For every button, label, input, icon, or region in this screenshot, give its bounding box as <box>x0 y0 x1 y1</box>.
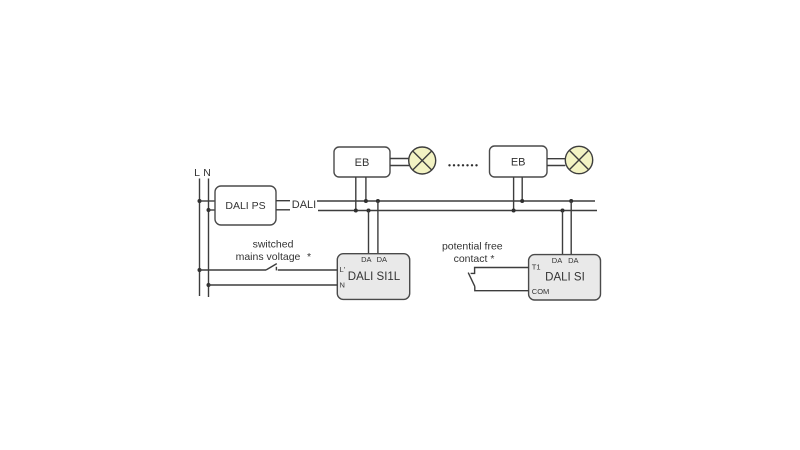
net label DALI <box>292 199 316 211</box>
svg-text:COM: COM <box>532 287 550 296</box>
junction SI1L on top bus <box>376 199 380 203</box>
node N <box>203 167 211 179</box>
wire EB2 to lamp bottom <box>547 165 565 167</box>
svg-text:T1: T1 <box>532 263 541 272</box>
junction SI on top bus <box>569 199 573 203</box>
ballast EB1 <box>334 147 390 177</box>
junction EB2 on bottom bus <box>512 209 516 213</box>
junction EB1 on top bus <box>364 199 368 203</box>
svg-text:L': L' <box>340 265 346 274</box>
module DALI SI1L <box>337 254 409 300</box>
wire EB1 to lamp bottom <box>390 165 409 167</box>
svg-text:N: N <box>340 281 345 290</box>
junction EB1 on bottom bus <box>354 209 358 213</box>
wire DALI PS out bottom <box>276 209 290 211</box>
wire N to DALI PS <box>209 209 216 211</box>
junction L to switch <box>198 268 202 272</box>
switch S1 <box>266 264 277 271</box>
svg-text:L: L <box>194 167 200 179</box>
label switched mains voltage <box>236 239 311 264</box>
wire DALI PS out top <box>276 200 290 202</box>
svg-text:DALI PS: DALI PS <box>225 200 265 212</box>
lamp LA2 <box>565 146 592 173</box>
ellipsis dots <box>448 164 477 166</box>
svg-text:*: * <box>307 251 311 263</box>
wire top bus to SI DA <box>570 201 572 255</box>
svg-text:DA: DA <box>568 256 578 265</box>
svg-text:DA: DA <box>377 255 387 264</box>
wire EB1 down right <box>365 177 367 201</box>
label potential free contact <box>442 241 503 266</box>
wire bottom bus to SI DA <box>562 211 564 255</box>
wire L to switch <box>200 269 267 271</box>
svg-text:DA: DA <box>552 256 562 265</box>
switch S2 <box>468 273 475 287</box>
wire L to DALI PS <box>200 200 216 202</box>
junction L to DALI PS <box>198 199 202 203</box>
svg-text:N: N <box>203 167 211 179</box>
wire EB1 to lamp top <box>390 158 409 160</box>
junction EB2 on top bus <box>520 199 524 203</box>
wire switch to SI1L L' <box>278 269 338 271</box>
svg-text:contact *: contact * <box>454 253 495 265</box>
wire top bus to SI1L DA <box>377 201 379 254</box>
svg-text:mains voltage: mains voltage <box>236 251 301 263</box>
module DALI SI <box>529 255 601 300</box>
power supply DALI PS <box>215 186 276 225</box>
wire bottom bus to SI1L DA <box>368 211 370 255</box>
junction SI1L on bottom bus <box>367 209 371 213</box>
lamp LA1 <box>409 147 436 174</box>
svg-text:EB: EB <box>511 157 526 169</box>
svg-text:potential free: potential free <box>442 241 503 253</box>
wire L rail <box>199 179 201 297</box>
junction N to SI1L <box>207 283 211 287</box>
svg-text:DALI SI1L: DALI SI1L <box>348 271 401 283</box>
svg-text:DALI SI: DALI SI <box>545 272 585 284</box>
wire DALI bus bottom <box>318 210 597 212</box>
junction SI on bottom bus <box>561 209 565 213</box>
wire SI T1 to switch <box>471 268 529 274</box>
node L <box>194 167 200 179</box>
wire N rail <box>208 179 210 298</box>
svg-text:DALI: DALI <box>292 199 316 211</box>
wire DALI bus top <box>317 200 595 202</box>
wire N to SI1L N <box>209 284 338 286</box>
svg-text:DA: DA <box>361 255 371 264</box>
svg-text:EB: EB <box>355 157 370 169</box>
wire EB1 down left <box>355 177 357 211</box>
wire EB2 down right <box>521 177 523 201</box>
wire EB2 down left <box>513 177 515 211</box>
wire switch to SI COM <box>475 286 529 290</box>
ballast EB2 <box>490 146 548 177</box>
junction N to DALI PS <box>207 208 211 212</box>
svg-text:switched: switched <box>253 239 294 251</box>
wire EB2 to lamp top <box>547 158 565 160</box>
